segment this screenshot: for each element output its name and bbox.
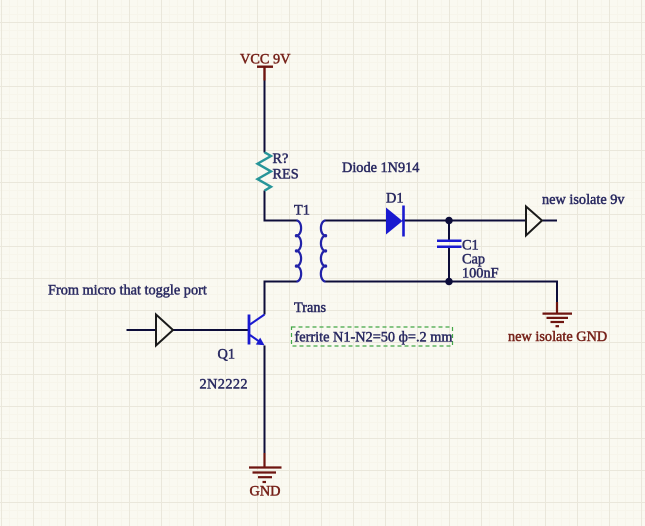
svg-text:Q1: Q1 [218,346,235,362]
svg-text:R?: R? [273,151,289,167]
svg-text:VCC 9V: VCC 9V [240,52,291,68]
svg-text:new isolate GND: new isolate GND [508,329,607,345]
svg-text:GND: GND [250,484,281,500]
svg-text:2N2222: 2N2222 [200,377,248,393]
svg-text:100nF: 100nF [462,266,499,282]
svg-text:RES: RES [273,167,299,183]
svg-text:D1: D1 [386,191,403,207]
svg-text:ferrite N1-N2=50 ф=.2 mm: ferrite N1-N2=50 ф=.2 mm [295,330,453,346]
svg-text:From micro that toggle port: From micro that toggle port [48,283,207,299]
svg-text:new isolate 9v: new isolate 9v [542,192,625,208]
svg-text:T1: T1 [294,203,310,219]
svg-text:Trans: Trans [294,300,326,316]
svg-text:Diode 1N914: Diode 1N914 [342,160,419,176]
